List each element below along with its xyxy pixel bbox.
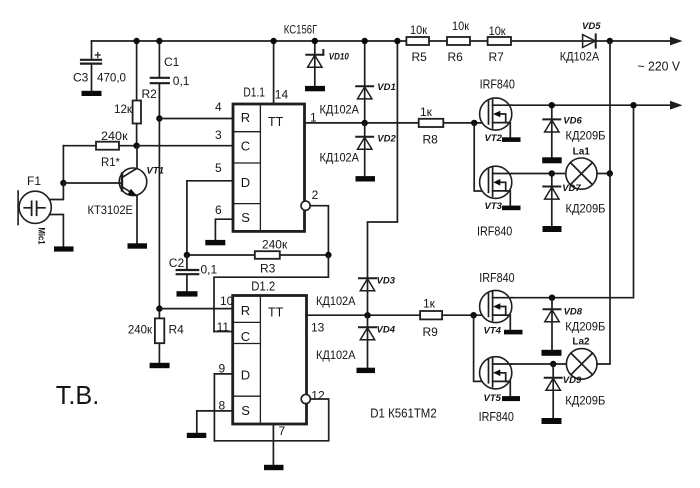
- node junction R3 right / pin2: [325, 252, 331, 258]
- svg-text:VT3: VT3: [485, 201, 503, 212]
- op-amp U2 D1.2 flip-flop block: [233, 279, 307, 424]
- node junction VD8 tap: [549, 295, 555, 301]
- svg-text:1к: 1к: [423, 297, 436, 311]
- svg-text:КС156Г: КС156Г: [284, 22, 318, 36]
- ground for pin 7: [264, 465, 284, 470]
- wire La2 right up to La1/VD5: [597, 174, 610, 365]
- resistor R6 10k: [447, 19, 470, 64]
- svg-text:КД102А: КД102А: [320, 151, 360, 165]
- ground for VD6: [542, 157, 562, 163]
- node junction R2 top rail: [133, 38, 139, 44]
- svg-text:IRF840: IRF840: [479, 270, 514, 285]
- ground for C3: [82, 91, 102, 96]
- svg-text:D1.1: D1.1: [243, 86, 265, 100]
- wire VT4 drain to rail riser: [512, 105, 634, 298]
- diode VD6 KD209B: [543, 105, 605, 157]
- capacitor C2 0,1: [169, 255, 218, 291]
- svg-text:КД102А: КД102А: [320, 103, 360, 117]
- wire second AC rail: [493, 104, 672, 106]
- wire La1 right to VD5 line: [597, 173, 610, 175]
- ground for VD2: [356, 176, 376, 181]
- diode VD1 KD102A: [320, 41, 396, 123]
- node junction La2 left / VD9: [550, 361, 556, 367]
- svg-text:R8: R8: [423, 133, 439, 147]
- transistor VT5 IRF840: [479, 357, 514, 424]
- svg-text:0,1: 0,1: [201, 263, 218, 277]
- ground for microphone: [54, 246, 74, 251]
- node second rail arrow to 220V: [670, 101, 683, 110]
- wire R1 left drop to base node: [62, 146, 64, 183]
- wire pin 6 S input to ground: [215, 203, 233, 240]
- svg-text:240к: 240к: [128, 323, 153, 337]
- svg-text:11: 11: [217, 320, 230, 334]
- diode VD2 KD102A: [320, 123, 397, 176]
- ground for VT4 source: [504, 330, 523, 335]
- node junction R1-R2-collector: [133, 143, 139, 149]
- wire gate drop to VT5: [474, 315, 489, 381]
- node label ~220V: [638, 59, 681, 74]
- wire pin 14 supply D1.1: [274, 41, 289, 104]
- svg-text:КД102А: КД102А: [316, 294, 356, 308]
- svg-text:VD3: VD3: [377, 276, 396, 287]
- svg-text:КД102А: КД102А: [316, 348, 356, 362]
- svg-text:VT1: VT1: [147, 166, 164, 177]
- svg-text:R5: R5: [412, 50, 428, 64]
- node junction riser on second rail: [630, 102, 636, 108]
- ground for VD8: [542, 350, 562, 356]
- ground for VT5 source: [502, 396, 520, 401]
- wire pin 11 C input: [214, 320, 233, 334]
- svg-text:10к: 10к: [489, 24, 507, 38]
- node junction La1 right VD5 line: [607, 170, 613, 176]
- svg-text:C1: C1: [164, 55, 180, 69]
- wire mic top terminal: [49, 183, 63, 200]
- node junction VD1-VD2 on pin1 line: [362, 120, 368, 126]
- node junction R3 left / pin5 / C2: [184, 252, 190, 258]
- svg-text:9: 9: [219, 362, 226, 376]
- svg-text:VD9: VD9: [563, 375, 582, 386]
- svg-text:ТТ: ТТ: [268, 306, 284, 320]
- svg-text:5: 5: [215, 161, 222, 175]
- resistor R4 240k: [128, 309, 184, 363]
- diode VD5 KD102A horizontal: [560, 21, 601, 64]
- resistor R2 12k: [114, 41, 157, 146]
- resistor R8 1k: [419, 105, 444, 147]
- wire pin 12 feedback to pin 9: [214, 399, 328, 441]
- svg-text:VT4: VT4: [484, 326, 502, 337]
- svg-text:КД209Б: КД209Б: [565, 393, 605, 407]
- svg-text:VD4: VD4: [377, 325, 396, 336]
- svg-text:R3: R3: [260, 262, 276, 276]
- ground for VD9: [542, 418, 562, 424]
- svg-text:R6: R6: [448, 50, 464, 64]
- svg-text:VD8: VD8: [564, 307, 583, 318]
- svg-text:VT2: VT2: [485, 133, 503, 144]
- node junction VD6 rail: [549, 102, 555, 108]
- svg-text:R1*: R1*: [101, 155, 120, 169]
- svg-text:VD7: VD7: [562, 183, 581, 194]
- svg-text:VD10: VD10: [329, 52, 350, 63]
- wire gate drop to VT3: [474, 123, 488, 191]
- svg-text:C2: C2: [169, 256, 185, 270]
- node label D1 K561TM2: [370, 407, 436, 421]
- svg-text:13: 13: [311, 321, 325, 335]
- node junction VD1 rail: [362, 38, 368, 44]
- wire pin 8 S input to ground: [197, 399, 233, 434]
- node junction VT2/VT3 gates: [471, 120, 477, 126]
- node junction La1 left / VD7: [549, 170, 555, 176]
- svg-text:4: 4: [215, 100, 222, 114]
- svg-text:F1: F1: [27, 174, 41, 188]
- wire VT3 drain to La1: [512, 173, 566, 175]
- svg-text:~ 220 V: ~ 220 V: [638, 59, 681, 74]
- ground for VD10: [305, 86, 325, 91]
- svg-text:D: D: [241, 368, 250, 383]
- node junction drop line rail: [394, 38, 400, 44]
- svg-text:7: 7: [279, 424, 286, 438]
- ground for pin 8: [187, 433, 207, 438]
- svg-text:La1: La1: [573, 147, 591, 158]
- wire pin 9 D input feedback: [214, 362, 232, 441]
- svg-text:D: D: [241, 175, 250, 190]
- resistor R3 240k feedback: [187, 238, 329, 276]
- ground for VT3 source: [502, 206, 521, 211]
- node junction VT4/VT5 gates: [470, 312, 476, 318]
- svg-text:14: 14: [275, 88, 289, 102]
- resistor R5 10k: [406, 23, 429, 64]
- transistor VT1 KT3102E: [63, 146, 164, 244]
- node junction VD5 out: [607, 38, 613, 44]
- svg-text:R: R: [241, 303, 250, 318]
- svg-text:La2: La2: [572, 337, 590, 348]
- wire pin 10 R input: [159, 294, 233, 309]
- diode VD3 KD102A: [316, 276, 396, 316]
- svg-text:КД209Б: КД209Б: [566, 129, 606, 143]
- diode VD10 zener KS156G: [284, 22, 350, 86]
- svg-text:0,1: 0,1: [173, 74, 190, 88]
- svg-text:VD5: VD5: [582, 21, 601, 32]
- diode VD4 KD102A: [316, 315, 396, 368]
- svg-text:R: R: [241, 110, 250, 125]
- svg-text:VD1: VD1: [377, 82, 395, 93]
- svg-text:Т.В.: Т.В.: [56, 380, 100, 410]
- svg-text:D1 К561ТМ2: D1 К561ТМ2: [370, 407, 436, 421]
- svg-text:470,0: 470,0: [97, 71, 126, 85]
- wire pin 1 output D1.1: [305, 111, 489, 125]
- svg-text:1к: 1к: [420, 105, 433, 119]
- wire VD5 down to La1: [609, 41, 611, 174]
- wire top +rail: [92, 40, 673, 42]
- resistor R9 1k: [420, 297, 442, 340]
- transistor VT2 IRF840: [480, 77, 515, 145]
- svg-text:C3: C3: [73, 71, 89, 85]
- lamp La2: [566, 337, 597, 380]
- wire mic bottom terminal: [49, 215, 63, 247]
- op-amp U1 D1.1 flip-flop block: [233, 86, 305, 232]
- svg-text:КТ3102Е: КТ3102Е: [88, 203, 134, 217]
- wire pin 4 R input: [159, 100, 233, 119]
- diode VD8 KD209B: [544, 298, 606, 350]
- svg-text:C: C: [241, 139, 250, 154]
- svg-text:R9: R9: [423, 325, 439, 339]
- svg-text:6: 6: [215, 203, 222, 217]
- wire pin 13 output D1.2: [307, 315, 489, 334]
- svg-text:D1.2: D1.2: [251, 279, 275, 293]
- svg-text:VD6: VD6: [563, 116, 582, 127]
- ground for R4: [150, 363, 170, 368]
- svg-text:C: C: [241, 329, 250, 344]
- svg-text:КД209Б: КД209Б: [565, 320, 605, 334]
- svg-text:3: 3: [215, 128, 222, 142]
- svg-text:12: 12: [311, 389, 325, 403]
- ground for VT1 emitter: [128, 243, 148, 248]
- node junction pin4 tap: [156, 115, 162, 121]
- svg-text:240к: 240к: [262, 238, 288, 252]
- node top rail arrow to 220V: [670, 37, 683, 46]
- node junction pin14 rail: [270, 38, 276, 44]
- wire pin 7 ground D1.2: [273, 424, 285, 465]
- diode VD9 KD209B: [545, 364, 606, 418]
- diode VD7 KD209B: [543, 174, 605, 227]
- svg-text:VD2: VD2: [377, 134, 396, 145]
- wire rail drop to VD3: [368, 41, 398, 278]
- svg-text:R4: R4: [169, 323, 185, 337]
- node pin 12 inverted output bubble: [301, 389, 325, 404]
- svg-text:10к: 10к: [410, 23, 428, 37]
- transistor VT3 IRF840: [477, 166, 512, 238]
- svg-text:КД209Б: КД209Б: [566, 202, 606, 216]
- svg-text:S: S: [241, 210, 250, 225]
- svg-text:ТТ: ТТ: [268, 115, 284, 129]
- svg-text:R2: R2: [142, 87, 158, 101]
- svg-text:12к: 12к: [114, 102, 133, 116]
- svg-text:10к: 10к: [452, 19, 470, 33]
- wire pin 3 C input: [137, 128, 233, 146]
- svg-text:8: 8: [219, 399, 226, 413]
- capacitor C3 470,0 electrolytic: [73, 41, 126, 91]
- wire R3 right to pin 11: [214, 255, 328, 332]
- ground for VT2 source: [502, 137, 521, 142]
- wire pin 2 to R3 right: [310, 206, 328, 255]
- svg-text:R7: R7: [489, 50, 505, 64]
- ground for VD7: [543, 226, 562, 232]
- capacitor C1 0,1: [151, 41, 190, 309]
- svg-text:КД102А: КД102А: [560, 50, 600, 64]
- ground for pin 6: [205, 240, 225, 245]
- wire pin 5 D input: [187, 161, 233, 255]
- svg-text:S: S: [241, 403, 250, 418]
- node pin 2 inverted output bubble: [301, 188, 319, 210]
- node base junction dot: [60, 180, 66, 186]
- node junction VD3-VD4 on pin13 line: [364, 312, 370, 318]
- svg-text:IRF840: IRF840: [480, 77, 515, 92]
- wire VT5 drain to La2: [512, 363, 567, 365]
- resistor R7 10k: [488, 24, 511, 64]
- svg-text:10: 10: [220, 294, 234, 308]
- node junction VD10 rail: [312, 38, 318, 44]
- svg-text:Mic1: Mic1: [37, 228, 47, 245]
- transistor VT4 IRF840: [479, 270, 514, 337]
- lamp La1: [566, 147, 597, 190]
- svg-text:240к: 240к: [101, 129, 128, 143]
- svg-text:IRF840: IRF840: [479, 409, 514, 424]
- svg-text:1: 1: [310, 111, 317, 125]
- svg-text:IRF840: IRF840: [477, 224, 512, 239]
- microphone F1 Mic1: [18, 174, 51, 245]
- svg-text:VT5: VT5: [484, 393, 502, 404]
- ground for C2: [177, 291, 198, 296]
- ground for VD4: [357, 368, 376, 373]
- node label T.V. author: [56, 380, 100, 410]
- resistor R1* 240k: [63, 129, 136, 169]
- svg-text:2: 2: [312, 188, 319, 202]
- node junction R4 / C1 line / pin10: [156, 305, 162, 311]
- node junction C1 top rail: [156, 38, 162, 44]
